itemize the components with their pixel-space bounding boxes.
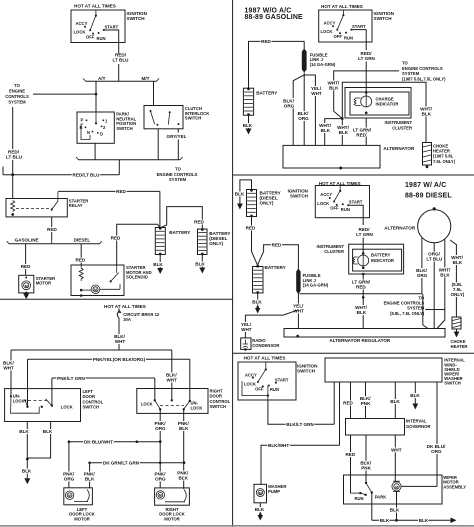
svg-text:BLK: BLK (255, 507, 265, 512)
wire WHT/BLK branch 2 to alternator (337, 117, 349, 145)
svg-text:ALTERNATOR: ALTERNATOR (384, 226, 416, 231)
svg-text:BLK: BLK (410, 393, 420, 398)
left door lock motor (64, 488, 93, 505)
svg-text:GASOLINE: GASOLINE (15, 237, 39, 242)
svg-text:LOCK: LOCK (244, 382, 256, 387)
svg-text:RED: RED (356, 285, 366, 290)
svg-text:BLK: BLK (179, 426, 189, 431)
svg-text:RED: RED (111, 236, 121, 241)
wire washer pump ground (255, 503, 265, 521)
wire YEL/WHT down from fusible (293, 292, 304, 329)
svg-text:CLUSTER: CLUSTER (324, 249, 344, 254)
svg-text:30A: 30A (123, 317, 131, 322)
ignition switch S3 contacts (317, 186, 363, 213)
svg-text:RUN: RUN (341, 207, 350, 212)
svg-text:BLK: BLK (440, 273, 450, 278)
svg-text:BLK: BLK (321, 128, 331, 133)
node alternator ground dot (339, 167, 342, 170)
wire divider vertical center (232, 0, 234, 527)
svg-text:ONLY): ONLY) (450, 292, 464, 297)
svg-text:BLK: BLK (422, 112, 432, 117)
svg-text:LOCK: LOCK (317, 201, 329, 206)
wire A/T branch (95, 81, 97, 112)
ignition switch S4 box (238, 362, 296, 400)
wire clutch output GRY/YEL (177, 129, 179, 133)
svg-text:RED: RED (345, 452, 355, 457)
svg-text:LT GRN: LT GRN (356, 232, 373, 237)
svg-text:START: START (105, 24, 119, 29)
svg-text:MOTOR: MOTOR (164, 516, 180, 521)
svg-text:BLK: BLK (339, 130, 349, 135)
right door lock motor (155, 488, 190, 505)
ignition switch S1 contacts (74, 10, 119, 41)
battery B4 (diesel only) (247, 189, 257, 218)
svg-text:SWITCH: SWITCH (374, 16, 393, 21)
svg-text:ORG: ORG (431, 449, 442, 454)
svg-text:ENGINE: ENGINE (9, 89, 25, 94)
wire RED wiper switch to governor (343, 382, 353, 419)
svg-text:SYSTEM: SYSTEM (402, 71, 420, 76)
svg-text:SWITCH: SWITCH (116, 126, 133, 131)
svg-text:ORG: ORG (298, 116, 309, 121)
wire battery5 ground (252, 293, 262, 314)
alternator regulator box (284, 329, 445, 338)
svg-text:SOLENOID: SOLENOID (126, 275, 148, 280)
node junction A/T + engine controls (95, 93, 98, 96)
svg-text:RED: RED (261, 39, 271, 44)
wire BLK motor to ground bus (390, 491, 400, 520)
svg-text:ALTERNATOR REGULATOR: ALTERNATOR REGULATOR (329, 338, 391, 343)
instrument cluster box (gasoline) (345, 88, 411, 119)
svg-text:RED: RED (246, 226, 256, 231)
wire PNK/YEL (OR BLK/ORG) bus (28, 357, 190, 407)
wire BLK/PNK governor to wiper motor (360, 435, 371, 483)
wire BLK to ground (22, 459, 32, 484)
svg-text:WHT: WHT (166, 378, 177, 383)
svg-text:BLK: BLK (419, 518, 429, 523)
wire PNK/BLK right switch down (177, 409, 189, 489)
ground battery2 (199, 268, 205, 274)
wire gasoline branch RED (25, 244, 27, 275)
svg-text:WHT: WHT (391, 448, 402, 453)
node A/T M/T bracket (83, 76, 159, 81)
svg-text:BLK: BLK (22, 469, 32, 474)
wiper motor M2 (392, 481, 401, 491)
ignition switch S2 box (319, 10, 372, 42)
svg-text:SWITCH: SWITCH (127, 16, 146, 21)
svg-text:ACCY: ACCY (245, 372, 257, 377)
wire divider diesel/wiper (233, 352, 474, 354)
ignition switch S4 contacts (242, 362, 289, 400)
svg-text:PNK/YEL(OR BLK/ORG): PNK/YEL(OR BLK/ORG) (93, 357, 146, 362)
svg-text:OFF: OFF (334, 34, 343, 39)
wire WHT/BLK net to engine controls (328, 71, 399, 119)
wire BLK wiper switch to governor (390, 382, 400, 419)
svg-text:LOCK: LOCK (191, 406, 203, 411)
wire fusible to alternator BLK/ORG horizontal (300, 293, 422, 295)
left door control switch box (5, 389, 81, 422)
svg-text:MOTOR: MOTOR (74, 516, 90, 521)
svg-text:BLK: BLK (390, 399, 400, 404)
svg-text:ACCY: ACCY (76, 21, 88, 26)
wire BLK/ORG 2 from fusible link (298, 75, 310, 145)
svg-text:SYSTEM: SYSTEM (8, 100, 26, 105)
svg-text:CLUSTER: CLUSTER (392, 125, 412, 130)
wire RED battery to solenoid (111, 224, 160, 265)
svg-text:TO: TO (402, 61, 408, 66)
svg-text:HOT AT ALL TIMES: HOT AT ALL TIMES (321, 4, 363, 9)
svg-text:OFF: OFF (86, 34, 95, 39)
svg-text:BLK: BLK (243, 123, 253, 128)
svg-text:BLK: BLK (390, 508, 400, 513)
svg-text:ENGINE CONTROLS: ENGINE CONTROLS (402, 66, 443, 71)
fusible link J (diesel) (296, 269, 300, 295)
clutch interlock switch box (144, 106, 183, 129)
svg-text:PNK/LT GRN: PNK/LT GRN (57, 376, 85, 381)
svg-text:INDICATOR: INDICATOR (376, 102, 399, 107)
svg-text:START: START (275, 377, 289, 382)
node ground junction (26, 458, 29, 461)
ground battery3 (246, 129, 252, 135)
wire BLK/WHT wiper switch to washer pump (261, 382, 340, 484)
svg-text:RELAY: RELAY (69, 203, 83, 208)
wire DK GRN/LT GRN crossover (88, 461, 185, 466)
svg-text:START: START (349, 200, 363, 205)
svg-text:WHT: WHT (311, 91, 322, 96)
node junction left feed (11, 173, 14, 176)
wire START output red/lt grn (diesel) (348, 205, 363, 225)
svg-text:TO: TO (175, 167, 181, 172)
wire WHT/BLK alternator to choke heater (diesel) (450, 240, 465, 317)
wire divider gasoline/diesel (233, 174, 474, 176)
starter relay internals (11, 192, 58, 216)
clutch interlock contacts (150, 110, 180, 126)
svg-text:BLK/WHT: BLK/WHT (268, 443, 289, 448)
svg-text:M: M (395, 485, 398, 489)
svg-text:D: D (100, 131, 103, 136)
wire YEL/WHT from fusible link (304, 75, 322, 145)
svg-text:LOCK: LOCK (74, 30, 86, 35)
svg-text:CONTROLS: CONTROLS (5, 94, 29, 99)
choke heater (gasoline) (423, 143, 432, 169)
svg-text:RUN: RUN (97, 36, 106, 41)
wire bracket to red/lt blu bus (118, 160, 120, 175)
svg-text:RED: RED (356, 132, 366, 137)
svg-text:ORG: ORG (284, 104, 295, 109)
svg-text:ONLY): ONLY) (209, 241, 223, 246)
wire BLK/LT GRN ignition to wiper switch (268, 382, 334, 427)
svg-text:OFF: OFF (330, 206, 339, 211)
wiper motor run/park switch (351, 482, 387, 501)
svg-text:RED: RED (76, 257, 86, 262)
wire battery1 ground (159, 255, 161, 269)
svg-text:RUN: RUN (355, 496, 364, 501)
svg-text:ACCY: ACCY (320, 192, 332, 197)
interval governor box (346, 419, 405, 436)
svg-text:BLK: BLK (153, 262, 163, 267)
wire DK BLU/WHT crossover (68, 440, 162, 445)
wire BLK/WHT breaker to bus (114, 331, 125, 350)
svg-text:WHT: WHT (3, 366, 14, 371)
svg-text:SWITCH: SWITCH (290, 194, 309, 199)
svg-text:SWITCH: SWITCH (210, 404, 227, 409)
svg-text:BLK: BLK (380, 518, 390, 523)
svg-text:RED: RED (343, 400, 353, 405)
svg-text:LT GRN: LT GRN (358, 56, 375, 61)
wire battery3 ground (248, 115, 250, 128)
right door switch contacts (141, 399, 203, 411)
wire down to A/T M/T bracket (118, 64, 120, 81)
charge indicator lamp (354, 91, 372, 114)
svg-text:88-89 GASOLINE: 88-89 GASOLINE (245, 14, 304, 21)
wire RED/LT BLU horizontal (3, 167, 119, 178)
wire BLK/WHT right drop (166, 350, 177, 400)
wire WHT/BLK to choke heater (342, 82, 432, 142)
circuit breaker CB12 (117, 309, 121, 332)
svg-text:RED: RED (21, 264, 31, 269)
alternator box (gasoline) (283, 145, 380, 168)
wire BLK/WHT bus horizontal (11, 349, 172, 351)
wire LT GRN/RED + WHT/BLK cluster to regulator (352, 274, 371, 329)
wire ignition feed down through cluster (365, 62, 367, 97)
wire BLK/ORG 1 from fusible link (283, 73, 304, 146)
solenoid internals (79, 265, 120, 297)
wire PNK/ORG left motor feed (63, 442, 75, 488)
wire BLK ground bus (372, 518, 457, 524)
starter motor and solenoid box (71, 265, 124, 296)
svg-text:BLK: BLK (453, 260, 463, 265)
node GASOLINE / DIESEL bracket (7, 237, 102, 243)
svg-text:BATTERY: BATTERY (169, 230, 190, 235)
svg-text:LT BLU: LT BLU (6, 155, 23, 160)
svg-text:BLK: BLK (178, 475, 188, 480)
svg-text:PARK: PARK (375, 494, 387, 499)
ground battery1 (157, 268, 163, 274)
svg-text:BLK/LT GRN: BLK/LT GRN (286, 422, 314, 427)
svg-text:RED: RED (272, 243, 282, 248)
battery B3 (243, 87, 253, 116)
wire BLK/PNK wiper switch to governor (360, 382, 371, 419)
svg-text:BATTERY: BATTERY (256, 90, 277, 95)
wire WHT/BLK alternator to engine controls (425, 239, 451, 328)
ignition switch S3 box (315, 186, 369, 218)
wire ignition to battery indicator (362, 238, 364, 254)
svg-text:SWITCH: SWITCH (185, 116, 202, 121)
svg-text:HOT AT ALL TIMES: HOT AT ALL TIMES (244, 356, 286, 361)
svg-text:GRY/YEL: GRY/YEL (167, 134, 187, 139)
svg-text:M: M (159, 494, 162, 498)
wire BLK/WHT left drop (3, 350, 14, 396)
node collector bracket (76, 157, 183, 160)
svg-text:BATTERY: BATTERY (265, 265, 286, 270)
wire START output red/lt grn (351, 30, 366, 50)
wire PARK to ground bus (371, 493, 373, 521)
wire RED governor to wiper motor (345, 435, 355, 493)
svg-text:BLK: BLK (329, 86, 339, 91)
wire left switch output BLK 2 (27, 422, 53, 459)
wire to engine controls system (33, 93, 96, 95)
svg-text:M: M (68, 494, 71, 498)
choke heater (diesel) (452, 317, 461, 338)
svg-text:ASSEMBLY: ASSEMBLY (443, 484, 466, 489)
svg-text:ONLY): ONLY) (260, 201, 274, 206)
alternator (diesel) circle (418, 207, 451, 243)
svg-text:INDICATOR: INDICATOR (371, 258, 394, 263)
wire PNK/LT GRN bus (52, 376, 155, 406)
svg-text:RED: RED (194, 220, 204, 225)
svg-text:N: N (87, 130, 90, 135)
svg-text:HOT AT ALL TIMES: HOT AT ALL TIMES (74, 3, 116, 8)
svg-text:M: M (259, 491, 262, 495)
wire bottom border (0, 525, 474, 527)
svg-text:ALTERNATOR: ALTERNATOR (383, 146, 415, 151)
svg-text:LT BLU: LT BLU (113, 58, 130, 63)
wire diesel branch RED (80, 244, 82, 265)
svg-text:HOT AT ALL TIMES: HOT AT ALL TIMES (104, 304, 146, 309)
svg-text:7.5L ONLY): 7.5L ONLY) (433, 159, 456, 164)
svg-text:LT BLU: LT BLU (426, 256, 443, 261)
svg-text:A/T: A/T (98, 76, 106, 81)
svg-text:SWITCH: SWITCH (297, 369, 316, 374)
wire battery2 ground (201, 255, 203, 268)
svg-text:BLK: BLK (85, 476, 95, 481)
wire YEL/WHT branch to radio condensor (241, 310, 299, 338)
wire clutch output 1 (157, 129, 159, 160)
svg-text:HEATER: HEATER (451, 344, 468, 349)
instrument cluster box (diesel) (349, 244, 404, 274)
wire START output red/lt blu (104, 30, 119, 54)
svg-text:RED: RED (47, 227, 57, 232)
svg-text:LOCK: LOCK (13, 399, 25, 404)
park/neutral switch contacts (80, 112, 109, 140)
svg-text:GOVERNOR: GOVERNOR (406, 424, 430, 429)
battery B5 (253, 265, 264, 294)
svg-text:ORG: ORG (155, 476, 166, 481)
svg-text:CONDENSOR: CONDENSOR (252, 343, 279, 348)
svg-text:BLK: BLK (43, 429, 53, 434)
battery indicator lamp (353, 252, 369, 269)
wire battery4 BLK ground (235, 180, 252, 210)
wire WHT/BLK branch 1 to alternator (319, 119, 342, 146)
wire DK BLU/ORG wiper switch to motor (401, 382, 446, 486)
svg-text:BLK: BLK (235, 192, 245, 197)
ignition switch S1 box (71, 10, 125, 43)
wire relay output to gasoline/diesel bracket (51, 217, 53, 240)
node regulator bottom dot (296, 335, 299, 338)
svg-text:DIESEL: DIESEL (74, 237, 91, 242)
svg-text:ORG: ORG (64, 476, 75, 481)
ignition switch S2 contacts (321, 10, 367, 41)
svg-text:SWITCH: SWITCH (83, 405, 100, 410)
right door control switch box (137, 389, 208, 414)
svg-text:LOCK: LOCK (61, 404, 73, 409)
svg-text:ORG: ORG (155, 426, 166, 431)
starter motor M1 (19, 275, 34, 293)
svg-text:88-89 DIESEL: 88-89 DIESEL (405, 192, 452, 199)
battery B2 (diesel only) (198, 228, 208, 255)
wire RED ignition-feed funnel to battery5 (258, 243, 299, 271)
fusible link J (gasoline) (302, 41, 307, 72)
wire RED relay to battery (58, 189, 160, 227)
svg-text:(14 GA-GRN): (14 GA-GRN) (310, 62, 336, 67)
svg-text:TO: TO (14, 83, 20, 88)
battery B1 (155, 227, 165, 256)
wire BLK/ORG alternator to regulator (416, 238, 428, 329)
svg-text:ORG: ORG (417, 273, 428, 278)
svg-text:ENGINE CONTROLS: ENGINE CONTROLS (157, 172, 198, 177)
wire left switch output BLK 1 (19, 422, 29, 460)
svg-text:(14 GA-GRN): (14 GA-GRN) (303, 283, 329, 288)
svg-text:DK BLU/WHT: DK BLU/WHT (84, 440, 113, 445)
svg-text:LOCK: LOCK (141, 401, 153, 406)
svg-text:PNK: PNK (361, 401, 371, 406)
ground starter motor (25, 292, 28, 295)
wire PNK/ORG right switch down (155, 409, 167, 488)
wire park/neutral output (94, 143, 96, 160)
svg-text:RED: RED (116, 189, 126, 194)
svg-text:RUN: RUN (344, 36, 353, 41)
svg-text:START: START (352, 24, 366, 29)
wire LT GRN/RED cluster to alternator (353, 118, 372, 145)
svg-text:BLK: BLK (252, 299, 262, 304)
wire RED battery4 to battery5 (246, 217, 258, 265)
svg-text:WHT: WHT (115, 339, 126, 344)
wiper motor assembly box (344, 475, 443, 504)
starter relay box (6, 199, 67, 217)
node cluster bottom junction (362, 273, 365, 276)
svg-text:ACCY: ACCY (324, 21, 336, 26)
park/neutral position switch box (77, 112, 114, 143)
svg-text:MOTOR: MOTOR (36, 281, 52, 286)
svg-text:RUN: RUN (270, 387, 279, 392)
wire WHT governor to wiper motor (391, 435, 402, 482)
wire ORG/LT BLU alternator to regulator (426, 243, 443, 329)
svg-text:BLK: BLK (195, 262, 205, 267)
svg-text:P: P (81, 118, 84, 123)
svg-text:BLK: BLK (19, 429, 29, 434)
wire PNK/BLK left motor feed (84, 463, 96, 489)
svg-text:M: M (25, 284, 28, 288)
radio condensor C1 (241, 338, 251, 351)
svg-text:M: M (94, 288, 97, 292)
wire left feed vertical (12, 107, 14, 149)
svg-text:WHT: WHT (241, 327, 252, 332)
wire battery1 to battery2 jumper (161, 207, 205, 229)
svg-text:RED/LT BLU: RED/LT BLU (73, 172, 101, 177)
svg-text:(5.8L, 7.5L ONLY): (5.8L, 7.5L ONLY) (390, 311, 425, 316)
svg-text:1987 W/ A/C: 1987 W/ A/C (405, 182, 446, 189)
wire M/T branch (153, 81, 155, 105)
svg-text:(1987 5.8L,7.5L ONLY): (1987 5.8L,7.5L ONLY) (402, 76, 446, 81)
left door switch contacts (10, 394, 73, 414)
interval windshield wiper/washer switch box (325, 358, 442, 382)
svg-text:SYSTEM: SYSTEM (169, 177, 187, 182)
wire RED to fusible link (249, 39, 305, 88)
svg-text:M/T: M/T (142, 76, 150, 81)
svg-text:LOCK: LOCK (321, 29, 333, 34)
svg-text:DK GRN/LT GRN: DK GRN/LT GRN (103, 461, 140, 466)
svg-text:PUMP: PUMP (268, 489, 280, 494)
svg-text:SWITCH: SWITCH (444, 381, 461, 386)
washer pump P1 (254, 484, 267, 503)
svg-text:BLK: BLK (357, 310, 367, 315)
wire divider starter/doorlock (0, 298, 233, 300)
svg-text:PNK: PNK (361, 466, 371, 471)
wire BLK wiper switch to ground (410, 382, 420, 410)
